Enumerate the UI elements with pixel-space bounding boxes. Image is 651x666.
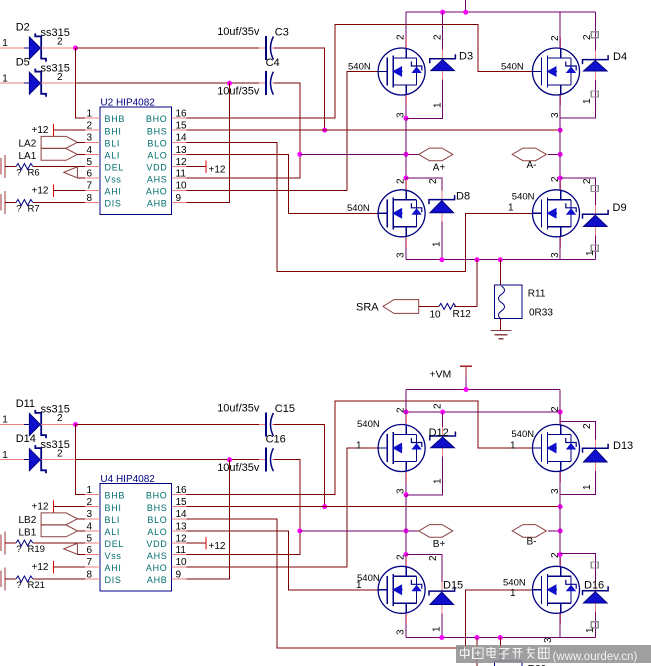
port B- label xyxy=(527,536,537,547)
diode D9 label xyxy=(613,202,627,214)
svg-text:3: 3 xyxy=(543,637,554,643)
Q3 pin2 xyxy=(396,178,407,184)
svg-text:1: 1 xyxy=(2,73,8,84)
svg-text:1: 1 xyxy=(582,484,593,490)
ground xyxy=(490,331,511,339)
wire source sense bus (top) xyxy=(406,259,595,261)
svg-text:1: 1 xyxy=(508,203,514,214)
capacitor C16 designator xyxy=(266,434,286,446)
wire C3 right to BHS net xyxy=(274,48,325,130)
svg-text:C3: C3 xyxy=(275,26,289,38)
diode D11 pin 1 label xyxy=(2,415,8,426)
svg-text:11: 11 xyxy=(176,545,187,556)
off-page connector (R21 input) xyxy=(1,568,5,591)
wire R19 row xyxy=(5,542,16,544)
op-amp U4 pin 5 number xyxy=(86,533,92,544)
svg-text:B-: B- xyxy=(527,536,537,547)
svg-text:540N: 540N xyxy=(511,429,534,440)
svg-text:D3: D3 xyxy=(459,51,473,63)
op-amp U4 pin 16 number xyxy=(176,485,188,496)
wire node to pin1 BHB xyxy=(76,425,86,495)
transistor Q5 540N (top-left of bottom bridge) body circle xyxy=(378,425,425,472)
wire switch node row to B+ xyxy=(300,530,419,532)
resistor R7 designator xyxy=(28,204,40,215)
svg-text:2: 2 xyxy=(432,34,443,40)
svg-text:D15: D15 xyxy=(443,580,463,592)
svg-text:BHS: BHS xyxy=(147,126,168,136)
op-amp U4 pin 12 name VDD xyxy=(146,539,167,549)
svg-text:540N: 540N xyxy=(501,61,524,72)
op-amp U4 pin 14 name BLO xyxy=(147,515,167,525)
svg-text:(www.ourdev.cn): (www.ourdev.cn) xyxy=(553,651,638,663)
wire D13 bottom lead xyxy=(560,462,595,494)
wire BHS pin15 to right switch node xyxy=(187,129,561,131)
op-amp U2 pin 7 stub xyxy=(85,189,100,191)
op-amp U2 pin 2 stub xyxy=(85,129,100,131)
R11 value 0R33 xyxy=(529,308,553,319)
D9 pin2 xyxy=(582,178,593,184)
op-amp U4 pin 12 stub xyxy=(172,542,187,544)
op-amp U2 pin 10 name AHO xyxy=(146,187,168,197)
wire D4 bottom lead xyxy=(560,71,595,118)
junction right column / BHS row xyxy=(558,128,563,133)
svg-text:1: 1 xyxy=(2,450,8,461)
op-amp U4 pin 10 name AHO xyxy=(146,563,168,573)
junction tie/right drain xyxy=(558,410,563,415)
wire Q3 source to bus xyxy=(405,237,407,260)
diode D8 lead stubs xyxy=(441,191,443,222)
svg-text:2: 2 xyxy=(396,407,407,413)
op-amp U4 pin 9 name AHB xyxy=(147,575,168,585)
op-amp U2 pin 12 stub xyxy=(172,166,187,168)
svg-text:ALI: ALI xyxy=(105,151,121,161)
junction bus/R11 xyxy=(498,257,503,262)
junction bus/R12 xyxy=(475,257,480,262)
capacitor C15 designator xyxy=(275,403,295,415)
junction D8/bus xyxy=(439,257,444,262)
junction switch node / drain column xyxy=(404,528,409,533)
port LA1 label xyxy=(19,151,37,162)
svg-text:ss315: ss315 xyxy=(41,439,70,451)
svg-text:1: 1 xyxy=(86,485,92,496)
op-amp U2 pin 3 stub xyxy=(85,141,100,143)
junction node / D15 row xyxy=(404,552,409,557)
watermark bar xyxy=(456,645,651,663)
wire node B+ column xyxy=(405,495,407,555)
op-amp U2 pin 14 name BLO xyxy=(147,139,167,149)
diode D12 lead stubs xyxy=(442,427,444,457)
wire D4 top lead xyxy=(594,12,596,59)
capacitor C15 value 10uf/35v xyxy=(217,403,260,415)
junction D15/bus xyxy=(439,635,444,640)
wire port to pin4 ALI xyxy=(77,530,85,532)
op-amp U2 pin 1 stub xyxy=(85,117,100,119)
op-amp U4 pin 16 name BHO xyxy=(146,491,168,501)
capacitor C3 designator xyxy=(275,26,289,38)
junction C3/BHS xyxy=(322,128,327,133)
svg-text:SRA: SRA xyxy=(356,302,379,314)
DEL-Vss tie arrow xyxy=(64,167,78,178)
wire D11 cathode to C15 xyxy=(76,424,266,426)
transistor value 540N xyxy=(348,61,371,72)
Q6 pin3 xyxy=(550,488,561,494)
transistor Q2 540N (top-right) internals xyxy=(533,48,577,95)
svg-text:+12: +12 xyxy=(209,165,226,176)
svg-text:Vss: Vss xyxy=(105,551,122,561)
resistor R6 value xyxy=(16,168,21,179)
wire D16 top lead xyxy=(560,554,595,591)
svg-text:12: 12 xyxy=(176,157,188,168)
Q5 pin2 xyxy=(396,407,407,413)
op-amp U2 pin 15 number xyxy=(176,121,188,132)
svg-text:2: 2 xyxy=(582,423,593,429)
diode D8 label xyxy=(456,191,470,203)
op-amp U4 pin 7 name AHI xyxy=(105,563,122,573)
wire tie to pin6 Vss xyxy=(77,554,85,556)
svg-text:1: 1 xyxy=(432,102,443,108)
wire R21 row xyxy=(5,578,16,580)
svg-text:+12: +12 xyxy=(32,125,49,136)
svg-text:DEL: DEL xyxy=(105,163,125,173)
op-amp U2 pin 16 name BHO xyxy=(146,114,168,124)
junction rail/supply stub (bottom) xyxy=(464,387,469,392)
svg-text:+12: +12 xyxy=(32,562,49,573)
junction C4/A+ row xyxy=(297,152,302,157)
wire D12 top lead xyxy=(442,412,444,436)
svg-text:LA1: LA1 xyxy=(19,151,37,162)
diode D12 body xyxy=(430,432,456,448)
svg-text:10uf/35v: 10uf/35v xyxy=(217,403,260,415)
svg-text:2: 2 xyxy=(396,34,407,40)
op-amp U2 pin 12 name VDD xyxy=(146,163,167,173)
svg-text:7: 7 xyxy=(86,557,92,568)
op-amp U2 pin 1 name BHB xyxy=(105,114,126,124)
diode D5 label xyxy=(16,57,30,69)
wire R21 to pin8 DIS xyxy=(33,578,85,580)
wire Q6 drain xyxy=(559,390,561,425)
off-page connector (R19 input) xyxy=(1,532,5,555)
D3 pin2 xyxy=(432,34,443,40)
diode D13 label xyxy=(613,440,633,452)
svg-text:2: 2 xyxy=(86,497,92,508)
Q3 pin3 xyxy=(396,252,407,258)
svg-text:ss315: ss315 xyxy=(41,27,70,39)
op-amp U4 pin 14 number xyxy=(176,509,188,520)
diode D14 label xyxy=(16,433,36,445)
svg-text:A+: A+ xyxy=(433,162,446,173)
wire D16 bottom lead xyxy=(594,603,596,638)
transistor Q6 540N (top-right of bottom bridge) body circle xyxy=(533,425,580,472)
svg-text:1: 1 xyxy=(356,580,362,591)
transistor Q7 540N (bottom-left of bottom bridge) internals xyxy=(378,566,422,613)
wire D12 bottom lead xyxy=(406,448,443,495)
transistor Q8 540N (bottom-right of bottom bridge) internals xyxy=(533,566,577,613)
op-amp U2 pin 11 stub xyxy=(172,177,187,179)
svg-text:10uf/35v: 10uf/35v xyxy=(217,26,260,38)
svg-text:R21: R21 xyxy=(28,580,45,591)
op-amp U2 pin 6 stub xyxy=(85,177,100,179)
op-amp U4 pin 13 number xyxy=(176,521,188,532)
svg-text:+12: +12 xyxy=(32,185,49,196)
capacitor C16 lead stubs xyxy=(259,459,280,461)
op-amp U4 pin 11 name AHS xyxy=(147,551,168,561)
svg-text:D9: D9 xyxy=(613,202,627,214)
transistor value 540N xyxy=(357,573,380,584)
capacitor C16 value 10uf/35v xyxy=(217,462,260,474)
diode D4 label xyxy=(613,51,627,63)
svg-text:10uf/35v: 10uf/35v xyxy=(217,86,260,98)
wire BHS pin15 to right switch node xyxy=(187,506,561,508)
diode D2 pin 2 label xyxy=(57,37,63,48)
wire node A column xyxy=(405,118,407,178)
op-amp U2 pin 13 name ALO xyxy=(147,151,167,161)
op-amp U4 pin 11 stub xyxy=(172,554,187,556)
wire source sense bus (bottom) xyxy=(406,637,595,639)
op-amp U2 pin 7 name AHI xyxy=(105,187,122,197)
svg-text:ss315: ss315 xyxy=(41,62,70,74)
capacitor C3 plates xyxy=(266,36,273,60)
port LB2 label xyxy=(19,515,37,526)
port LB1 label xyxy=(19,528,37,539)
svg-text:2: 2 xyxy=(396,178,407,184)
D8 pin1 xyxy=(432,241,443,247)
wire D2 cathode to C3 xyxy=(76,47,266,49)
svg-text:R7: R7 xyxy=(28,204,40,215)
diode D5 body xyxy=(29,69,46,97)
op-amp U2 pin 11 number xyxy=(176,169,187,180)
capacitor C4 plates xyxy=(266,71,273,95)
resistor R21 xyxy=(16,576,33,582)
R11 designator xyxy=(528,289,546,300)
wire bus to R11 xyxy=(499,260,501,286)
op-amp U2 pin 5 number xyxy=(86,157,92,168)
wire AHO pin10 net xyxy=(187,448,379,567)
transistor Q6 540N (top-right of bottom bridge) internals xyxy=(533,425,577,472)
svg-text:Vss: Vss xyxy=(105,174,122,184)
op-amp U4 pin 5 stub xyxy=(85,542,100,544)
diode D11 value ss315 xyxy=(41,404,70,416)
wire R7 to pin8 DIS xyxy=(33,202,85,204)
svg-text:AHI: AHI xyxy=(105,563,122,573)
svg-text:D8: D8 xyxy=(456,191,470,203)
op-amp U4 pin 8 stub xyxy=(85,578,100,580)
diode D3 lead stubs xyxy=(442,50,444,80)
op-amp U4 pin 2 stub xyxy=(85,506,100,508)
svg-text:BLO: BLO xyxy=(147,515,167,525)
svg-text:D4: D4 xyxy=(613,51,627,63)
wire C4 right / AHS net xyxy=(187,83,300,178)
op-amp U4 pin 10 stub xyxy=(172,566,187,568)
op-amp U4 pin 15 stub xyxy=(172,506,187,508)
diode D16 body xyxy=(583,586,609,603)
svg-text:AHB: AHB xyxy=(147,575,168,585)
resistor R21 designator xyxy=(28,580,45,591)
power +12 label (BHI U2) xyxy=(32,125,49,136)
Q4 pin3 xyxy=(550,252,561,258)
wire D14 cathode to C16 xyxy=(76,459,266,461)
svg-text:13: 13 xyxy=(176,521,188,532)
op-amp U4 pin 8 number xyxy=(86,569,92,580)
svg-text:540N: 540N xyxy=(347,203,370,214)
diode D16 label xyxy=(584,580,604,592)
capacitor C3 lead stubs xyxy=(259,47,280,49)
svg-text:540N: 540N xyxy=(503,578,526,589)
diode D3 label xyxy=(459,51,473,63)
op-amp U2 pin 13 stub xyxy=(172,153,187,155)
diode D14 body xyxy=(29,445,46,473)
wire +12 to pin2 BHI xyxy=(53,506,85,508)
diode D2 cathode wire xyxy=(41,47,76,49)
op-amp U2 pin 8 number xyxy=(86,193,92,204)
transistor Q3 540N (bottom-left of top bridge) lead stubs xyxy=(405,179,407,247)
svg-text:AHI: AHI xyxy=(105,187,122,197)
DEL-Vss tie arrow xyxy=(64,543,78,554)
svg-text:AHO: AHO xyxy=(146,563,168,573)
svg-text:2: 2 xyxy=(57,37,63,48)
transistor Q4 540N (bottom-right of top bridge) body circle xyxy=(533,190,580,237)
wire bus to R12 xyxy=(454,260,477,307)
diode D14 ss315 anode wire xyxy=(0,459,29,461)
svg-text:2: 2 xyxy=(396,554,407,560)
op-amp U4 pin 6 stub xyxy=(85,554,100,556)
svg-text:C16: C16 xyxy=(266,434,286,446)
off-page connector (R6 input) xyxy=(1,155,5,178)
wire port to pin3 BLI xyxy=(77,518,85,520)
svg-text:DIS: DIS xyxy=(105,199,122,209)
diode D5 value ss315 xyxy=(41,62,70,74)
op-amp U4 pin 1 name BHB xyxy=(105,491,126,501)
wire VDD pin12 to +12 xyxy=(187,542,207,544)
diode D2 pin 1 label xyxy=(2,38,8,49)
wire D3 top lead xyxy=(442,12,444,59)
svg-text:D11: D11 xyxy=(16,398,35,410)
transistor value 540N xyxy=(512,191,535,202)
op-amp U2 pin 4 stub xyxy=(85,153,100,155)
junction C15/BHS xyxy=(322,504,327,509)
wire ALO pin13 net xyxy=(187,531,379,590)
wire AHO pin10 net xyxy=(187,72,379,191)
diode D5 pin 2 label xyxy=(57,72,63,83)
wire VDD pin12 to +12 xyxy=(187,166,207,168)
power +12 bar (VDD U2) xyxy=(205,161,207,174)
svg-text:2: 2 xyxy=(550,35,561,41)
D4 pin1 xyxy=(582,98,593,104)
transistor value 540N xyxy=(501,61,524,72)
svg-text:1: 1 xyxy=(585,250,596,256)
op-amp U2 pin 16 stub xyxy=(172,117,187,119)
wire BHO pin16 net xyxy=(187,401,533,495)
svg-text:3: 3 xyxy=(396,112,407,118)
svg-text:1: 1 xyxy=(432,626,443,632)
transistor value 540N xyxy=(357,419,380,430)
op-amp U2 pin 7 number xyxy=(86,181,92,192)
wire port to pin4 ALI xyxy=(77,153,85,155)
D8 pin2 xyxy=(428,178,439,184)
svg-text:9: 9 xyxy=(176,569,182,580)
svg-text:3: 3 xyxy=(396,488,407,494)
wire ALO pin13 net xyxy=(187,154,379,213)
svg-text:1: 1 xyxy=(356,440,362,451)
transistor Q7 540N (bottom-left of bottom bridge) lead stubs xyxy=(405,556,407,624)
capacitor C4 designator xyxy=(266,57,280,69)
port B- xyxy=(512,525,546,538)
op-amp U2 pin 16 number xyxy=(176,108,188,119)
svg-text:VDD: VDD xyxy=(146,539,167,549)
port A+ xyxy=(419,148,453,161)
svg-text:1: 1 xyxy=(432,478,443,484)
wire Q5 drain xyxy=(405,390,407,425)
svg-text:?: ? xyxy=(16,580,21,591)
op-amp U4 pin 9 stub xyxy=(172,578,187,580)
power +VM label xyxy=(429,369,451,381)
svg-text:540N: 540N xyxy=(357,419,380,430)
junction C16/A+ row xyxy=(297,528,302,533)
svg-text:14: 14 xyxy=(176,133,188,144)
svg-text:D5: D5 xyxy=(16,57,30,69)
svg-text:2: 2 xyxy=(550,406,561,412)
diode D11 label xyxy=(16,398,35,410)
svg-text:2: 2 xyxy=(428,178,439,184)
diode D4 body xyxy=(583,55,609,71)
transistor Q1 540N (top-left) lead stubs xyxy=(405,38,407,106)
D15 pin1 xyxy=(432,626,443,632)
op-amp U2 pin 1 number xyxy=(86,108,92,119)
port LA2 xyxy=(41,136,77,148)
transistor Q2 540N (top-right) body circle xyxy=(533,48,580,95)
svg-text:BLO: BLO xyxy=(147,139,167,149)
svg-text:10: 10 xyxy=(176,181,188,192)
capacitor C3 value 10uf/35v xyxy=(217,26,260,38)
power +12 bar (BHI U2) xyxy=(52,124,54,136)
svg-text:6: 6 xyxy=(86,545,92,556)
op-amp U2 pin 10 stub xyxy=(172,189,187,191)
Q1 pin3 xyxy=(396,112,407,118)
svg-text:3: 3 xyxy=(86,133,92,144)
diode D2 value ss315 xyxy=(41,27,70,39)
diode D3 body xyxy=(430,54,456,70)
resistor R19 xyxy=(16,540,33,546)
op-amp U2 pin 3 name BLI xyxy=(105,139,121,149)
power +12 bar (AHI U2) xyxy=(52,184,54,197)
svg-text:D13: D13 xyxy=(613,440,633,452)
wire R11 to ground xyxy=(499,319,501,331)
wire bus to SRB resistor (cropped) xyxy=(476,638,478,666)
svg-text:C15: C15 xyxy=(275,403,295,415)
R12 value 10 xyxy=(430,310,442,321)
op-amp U2 pin 12 number xyxy=(176,157,188,168)
wire tie to pin6 Vss xyxy=(77,177,85,179)
wire AHB bootstrap: pin9 to C4 xyxy=(187,83,230,202)
transistor value 540N xyxy=(511,429,534,440)
op-amp U2 pin 4 name ALI xyxy=(105,151,121,161)
wire AHB bootstrap: pin9 to C16 xyxy=(187,460,230,579)
wire B- to right column xyxy=(548,530,560,532)
diode D16 no-connect marker 1 xyxy=(591,562,598,568)
wire Q1 drain xyxy=(405,12,407,48)
transistor Q5 540N (top-left of bottom bridge) lead stubs xyxy=(405,414,407,482)
svg-text:AHS: AHS xyxy=(147,174,168,184)
op-amp U4 pin 2 number xyxy=(86,497,92,508)
diode D15 lead stubs xyxy=(441,582,443,613)
op-amp U2 pin 3 number xyxy=(86,133,92,144)
transistor value 540N xyxy=(347,203,370,214)
op-amp U4 pin 4 name ALI xyxy=(105,527,121,537)
port A- label xyxy=(527,160,537,171)
capacitor C4 lead stubs xyxy=(259,82,280,84)
op-amp U2 pin 8 stub xyxy=(85,202,100,204)
transistor Q1 540N (top-left) internals xyxy=(378,48,422,95)
svg-text:7: 7 xyxy=(86,181,92,192)
